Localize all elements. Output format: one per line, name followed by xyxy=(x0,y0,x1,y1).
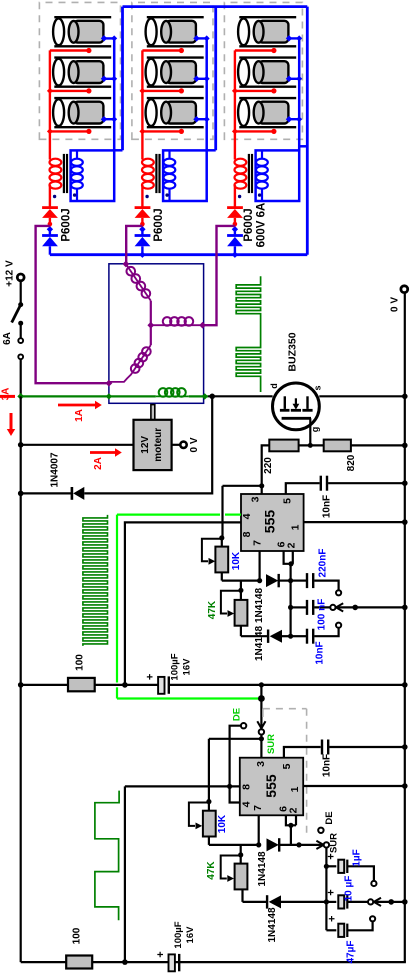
pin 7 label xyxy=(252,805,264,811)
wire pin2 xyxy=(292,551,294,564)
svg-text:5: 5 xyxy=(282,498,294,504)
wire diode junction group 2 xyxy=(140,218,145,227)
dashed enclosure timer 2 xyxy=(263,709,307,836)
wire xyxy=(262,445,270,485)
wire bottom rail xyxy=(21,961,406,963)
label s xyxy=(313,385,323,390)
svg-text:10nF: 10nF xyxy=(322,495,333,518)
pin 8 label xyxy=(241,531,253,537)
wire phase 3 (purple) xyxy=(204,226,235,325)
winding coil A (purple) xyxy=(126,264,151,325)
svg-text:2: 2 xyxy=(288,807,300,813)
svg-text:DE: DE xyxy=(324,811,335,824)
wire xyxy=(20,281,22,305)
label 100 xyxy=(75,654,86,671)
selector wiper 2 xyxy=(374,898,405,906)
label +12 V xyxy=(5,260,16,287)
junction green right xyxy=(202,393,208,399)
svg-text:+12 V: +12 V xyxy=(5,260,16,287)
terminal sel2 b xyxy=(368,899,373,904)
wire cell 2.3 negative (red) xyxy=(142,129,184,134)
selector arrow to SUR xyxy=(257,699,265,729)
junction xyxy=(402,744,408,750)
label SUR (green) xyxy=(266,734,277,754)
capacitor C2 220nF xyxy=(291,573,339,590)
wire blue cell bus group 2 xyxy=(205,38,208,150)
capacitor C3 100nF xyxy=(291,600,331,615)
capacitor C5 100uF 16V xyxy=(145,674,169,694)
transistor Q1 BUZ350 xyxy=(273,383,320,430)
junction xyxy=(402,783,408,789)
label 47K xyxy=(207,600,218,619)
label 1uF xyxy=(352,849,363,866)
junction red bus group 3 xyxy=(232,128,238,134)
battery cell group 3 row 1 xyxy=(238,17,296,46)
wire blue cathode rail xyxy=(50,253,307,256)
potentiometer P4 47K xyxy=(221,855,267,902)
transformer T3 xyxy=(235,150,268,201)
junction pin2/6 U2 xyxy=(288,823,293,828)
junction xyxy=(259,682,264,687)
wire pin1 ground U2 xyxy=(303,785,405,787)
wire blue cell bus group 1 xyxy=(113,38,116,150)
polarity dot T3 primary xyxy=(238,195,241,198)
wire diode junction group 1 xyxy=(48,218,53,227)
svg-text:47K: 47K xyxy=(206,861,217,880)
secondary loop box group 2 (blue) xyxy=(163,150,207,201)
wire pin6 xyxy=(284,551,293,564)
svg-text:1N4148: 1N4148 xyxy=(254,626,265,661)
svg-text:P600J: P600J xyxy=(60,208,72,241)
wire xyxy=(351,444,405,446)
junction blue rail group3 xyxy=(232,252,238,258)
polarity dot T1 primary xyxy=(53,195,56,198)
wire cell 1.2 negative (red) xyxy=(50,88,92,93)
junction red bus group 1 xyxy=(47,128,53,134)
label 10 uF xyxy=(344,876,355,902)
label 0 V xyxy=(390,297,401,312)
terminal sel1 a xyxy=(336,590,341,595)
battery cell group 2 row 1 xyxy=(146,17,204,46)
inductor motor lead (green) xyxy=(156,388,189,397)
svg-text:5: 5 xyxy=(281,763,293,769)
dashed enclosure battery group 3 xyxy=(224,2,302,139)
label 100uF 16V xyxy=(173,921,196,948)
label 47K xyxy=(206,861,217,880)
stator winding box xyxy=(109,264,204,404)
wire blue right edge xyxy=(299,7,307,255)
wire cell 1.3 positive (blue) xyxy=(101,116,117,123)
polarity dot T1 secondary xyxy=(73,193,76,196)
potentiometer P3 10K xyxy=(189,802,259,845)
terminal motor 0V xyxy=(180,442,186,448)
switch 6A xyxy=(12,302,24,396)
resistor R3 100 xyxy=(68,678,95,691)
label 10K xyxy=(217,814,228,833)
junction pin3 node xyxy=(259,483,264,488)
svg-text:10nF: 10nF xyxy=(315,641,326,664)
svg-text:7: 7 xyxy=(252,805,264,811)
label d xyxy=(269,383,279,389)
svg-text:6A: 6A xyxy=(2,332,13,345)
capacitor C10 100uF 16V xyxy=(155,951,179,971)
polarity dot T2 primary xyxy=(145,195,148,198)
junction bus row1 xyxy=(324,864,329,869)
diode D2b P600J (blue) xyxy=(135,229,151,254)
svg-text:g: g xyxy=(310,427,320,433)
wire timing bus xyxy=(290,564,292,636)
wire xyxy=(299,444,324,446)
label 2A (red) xyxy=(93,457,104,470)
junction xyxy=(238,852,243,857)
junction xyxy=(402,605,408,611)
label 100 nF xyxy=(317,599,328,631)
wire cell 1.2 positive (blue) xyxy=(101,76,117,83)
transformer T1 xyxy=(50,150,83,201)
wire xyxy=(21,492,71,494)
svg-text:100: 100 xyxy=(75,654,86,671)
junction pin7 node U2 xyxy=(256,842,261,847)
svg-text:1µF: 1µF xyxy=(352,849,363,866)
svg-text:555: 555 xyxy=(263,774,279,798)
terminal +12V xyxy=(17,274,24,281)
waveform gate burst (green) xyxy=(236,276,260,392)
wire pin3 output U2 xyxy=(209,734,262,801)
svg-text:+: + xyxy=(327,916,339,922)
pin 5 label xyxy=(281,763,293,769)
junction bottom node xyxy=(122,959,128,965)
svg-text:10K: 10K xyxy=(217,814,228,833)
svg-text:1A: 1A xyxy=(74,409,85,422)
wire cell 2.1 positive (blue) xyxy=(193,35,209,41)
svg-text:1: 1 xyxy=(289,786,301,792)
label 1N4148 xyxy=(254,626,265,661)
label 10nF xyxy=(315,641,326,664)
wire pin7 xyxy=(259,551,261,581)
label 220nF xyxy=(317,549,328,578)
junction red bus group 3 xyxy=(232,88,238,94)
junction bus row2 xyxy=(288,605,293,610)
svg-text:47K: 47K xyxy=(207,600,218,619)
wire cell 3.2 negative (red) xyxy=(235,88,277,93)
label 47uF xyxy=(346,941,357,964)
wire xyxy=(290,825,292,845)
svg-text:7: 7 xyxy=(252,540,264,546)
wire blue return top line xyxy=(123,5,308,8)
battery cell group 2 row 2 xyxy=(146,58,204,87)
junction xyxy=(402,682,408,688)
wire DE to pin8/4 xyxy=(230,726,242,787)
pin 4 label xyxy=(241,513,253,519)
svg-text:10K: 10K xyxy=(231,551,242,570)
wire red bus to diode group 2 xyxy=(141,185,143,207)
capacitor C1 10nF xyxy=(321,476,327,491)
svg-text:2: 2 xyxy=(286,542,298,548)
label 100 xyxy=(72,927,83,944)
selector wiper 1 xyxy=(336,603,405,611)
pin 1 label xyxy=(290,524,302,530)
terminal DE xyxy=(241,723,246,728)
junction supply node xyxy=(122,682,128,688)
wire blue drop group2 xyxy=(207,7,216,151)
wire motor positive xyxy=(172,444,181,446)
capacitor C6 10nF xyxy=(322,740,328,755)
junction xyxy=(402,899,408,905)
junction gate node xyxy=(308,443,313,448)
junction red bus group 2 xyxy=(139,128,145,134)
svg-text:1: 1 xyxy=(290,524,302,530)
diode D1b P600J (blue) xyxy=(42,229,58,254)
wire pin2 U2 xyxy=(295,815,297,825)
secondary loop box group 1 (blue) xyxy=(71,150,115,201)
motor shaft xyxy=(151,405,155,420)
wire blue cell bus group 3 xyxy=(298,38,301,150)
secondary loop box group 3 (blue) xyxy=(256,150,300,201)
svg-text:555: 555 xyxy=(262,510,278,534)
svg-text:DE: DE xyxy=(232,708,243,721)
wire xyxy=(328,482,405,484)
svg-text:1N4148: 1N4148 xyxy=(257,851,268,886)
svg-text:P600J: P600J xyxy=(153,208,165,241)
svg-text:0 V: 0 V xyxy=(390,297,401,312)
svg-text:3A: 3A xyxy=(1,388,12,401)
arrow 2A current (red) xyxy=(90,448,122,456)
pin 4 label xyxy=(241,801,253,807)
wire supply row xyxy=(21,684,68,686)
winding coil C (purple) xyxy=(109,325,151,382)
svg-text:100 nF: 100 nF xyxy=(317,599,328,631)
pin 8 label xyxy=(241,784,253,790)
svg-text:1N4148: 1N4148 xyxy=(267,907,278,942)
diode D2a P600J (red) xyxy=(135,208,151,218)
svg-text:2A: 2A xyxy=(93,457,104,470)
svg-text:0 V: 0 V xyxy=(189,437,200,452)
pin 7 label xyxy=(252,540,264,546)
junction pin7 node xyxy=(257,578,262,583)
wire diode junction group 3 xyxy=(233,218,238,227)
potentiometer P2 47K xyxy=(221,590,268,636)
svg-text:SUR: SUR xyxy=(266,734,277,754)
battery cell group 1 row 2 xyxy=(53,58,111,87)
pin 3 label xyxy=(250,496,262,502)
junction pot top xyxy=(219,535,224,540)
pin 2 label xyxy=(288,807,300,813)
terminal sel1 c xyxy=(336,623,341,628)
terminal sel2 a xyxy=(371,881,376,886)
svg-text:16V: 16V xyxy=(182,658,193,676)
svg-text:12V: 12V xyxy=(140,436,151,454)
svg-text:220: 220 xyxy=(263,457,274,474)
svg-text:4: 4 xyxy=(241,513,253,519)
wire pin6 U2 xyxy=(286,815,296,825)
wire cell 3.1 positive (blue) xyxy=(286,35,302,41)
wire motor negative xyxy=(21,444,134,446)
junction blue rail group2 xyxy=(139,252,145,258)
wire blue drop group1 xyxy=(114,7,122,151)
wire pin5 U2 xyxy=(284,747,321,758)
junction pin3 tee xyxy=(259,736,264,741)
label BUZ350 xyxy=(287,332,299,371)
junction xyxy=(18,442,24,448)
arrow 3A current (red) xyxy=(7,413,15,436)
svg-text:4: 4 xyxy=(241,801,253,807)
svg-text:100µF: 100µF xyxy=(173,921,184,948)
junction 3A node xyxy=(17,393,24,400)
junction winding centre xyxy=(147,322,154,329)
svg-text:P600J: P600J xyxy=(243,208,255,241)
battery cell group 1 row 3 xyxy=(53,98,111,127)
capacitor C4 10nF xyxy=(291,628,339,644)
diode D8 1N4148 xyxy=(267,895,326,908)
arrow 1A current (red) xyxy=(58,401,102,409)
motor M1 12V xyxy=(134,420,172,470)
label 10nF xyxy=(322,495,333,518)
svg-text:BUZ350: BUZ350 xyxy=(287,332,299,371)
svg-text:47µF: 47µF xyxy=(346,941,357,964)
svg-text:220nF: 220nF xyxy=(317,549,328,578)
wire red bus group 2 xyxy=(141,50,143,159)
selector arrow to SUR 2 xyxy=(316,841,323,849)
wire timing bus U2 xyxy=(325,847,327,930)
wire gate xyxy=(309,418,311,445)
label 1A (red) xyxy=(74,409,85,422)
junction xyxy=(402,443,408,449)
label SUR xyxy=(329,833,340,853)
battery cell group 3 row 2 xyxy=(238,58,296,87)
wire cell 3.1 negative (red) xyxy=(235,48,277,53)
polarity dot T3 secondary xyxy=(258,193,261,196)
junction green left xyxy=(106,393,112,399)
wire phase 2 (purple) xyxy=(126,226,142,264)
svg-text:+: + xyxy=(155,951,167,957)
junction bus row3 xyxy=(288,634,293,639)
terminal SUR xyxy=(259,729,264,734)
junction blue group 2 xyxy=(139,226,145,232)
junction flyback node xyxy=(209,394,215,400)
junction pin8/4 node xyxy=(227,784,232,789)
svg-text:1N4007: 1N4007 xyxy=(50,452,61,487)
wire red bus to diode group 1 xyxy=(49,185,51,207)
label P600J xyxy=(60,208,72,241)
wire motor line (green) xyxy=(21,395,208,397)
resistor R4 100 xyxy=(66,956,92,969)
svg-text:3: 3 xyxy=(250,496,262,502)
transformer T2 xyxy=(142,150,175,201)
svg-text:SUR: SUR xyxy=(329,833,340,853)
label 1N4148 xyxy=(257,851,268,886)
pin 2 label xyxy=(286,542,298,548)
diode D3a P600J (red) xyxy=(227,208,243,218)
dashed enclosure battery group 1 xyxy=(39,2,120,139)
wire pin3 output xyxy=(223,486,262,538)
label 10K xyxy=(231,551,242,570)
capacitor C9 47uF xyxy=(326,916,372,937)
label P600J 600V 6A xyxy=(243,203,268,248)
battery cell group 2 row 3 xyxy=(146,98,204,127)
wire +12V rail (left) xyxy=(20,396,22,962)
label 6A xyxy=(2,332,13,345)
label 1N4148 xyxy=(254,588,265,623)
wire cell 1.3 negative (red) xyxy=(50,129,92,134)
svg-text:16V: 16V xyxy=(185,926,196,944)
junction blue group 3 xyxy=(232,226,238,232)
wire source to rail xyxy=(319,395,405,397)
wire cell 3.3 positive (blue) xyxy=(286,116,302,123)
wire drain line xyxy=(208,395,273,397)
winding coil B (purple) xyxy=(151,317,204,326)
label 820 xyxy=(346,454,357,471)
terminal 0V xyxy=(401,286,408,293)
junction red bus group 2 xyxy=(139,88,145,94)
svg-text:moteur: moteur xyxy=(153,428,164,462)
wire cell 2.2 negative (red) xyxy=(142,88,184,93)
junction blue group 1 xyxy=(47,226,53,232)
junction xyxy=(18,682,24,688)
label DE (green) xyxy=(232,708,243,721)
junction xyxy=(402,480,408,486)
wire pin1 ground xyxy=(304,521,405,523)
wire xyxy=(240,581,242,591)
label P600J xyxy=(153,208,165,241)
waveform slow gate (green) xyxy=(95,791,119,921)
terminal sel1 b xyxy=(330,605,335,610)
label 10nF xyxy=(321,754,332,777)
diode D5 1N4148 xyxy=(266,574,291,587)
waveform oscillator (green) xyxy=(83,515,108,646)
wire xyxy=(95,684,158,686)
wire xyxy=(260,685,262,699)
pin 6 label xyxy=(276,541,288,547)
IC U2 555 xyxy=(240,758,303,816)
wire phase 1 (purple) xyxy=(36,226,109,383)
junction winding right xyxy=(199,322,206,329)
terminal DE 2 xyxy=(318,828,323,833)
svg-text:8: 8 xyxy=(241,784,253,790)
resistor R2 820 xyxy=(324,440,351,452)
junction pin2/6 xyxy=(288,561,293,566)
svg-text:s: s xyxy=(313,385,323,390)
terminal SUR 2 xyxy=(324,842,329,847)
junction red bus group 1 xyxy=(47,88,53,94)
junction bus row2 xyxy=(324,899,329,904)
diode D3b P600J (blue) xyxy=(227,229,243,254)
diode D4 1N4007 xyxy=(72,487,84,500)
wire pin5 xyxy=(286,483,320,494)
junction bus row1 xyxy=(288,578,293,583)
junction pot top U2 xyxy=(206,799,211,804)
label 100uF 16V xyxy=(170,653,193,680)
label g xyxy=(310,427,320,433)
label DE xyxy=(324,811,335,824)
svg-text:+: + xyxy=(145,674,157,680)
junction xyxy=(238,588,243,593)
potentiometer P1 10K xyxy=(202,538,260,581)
pin 1 label xyxy=(289,786,301,792)
polarity dot T2 secondary xyxy=(165,193,168,196)
wire cell 3.3 negative (red) xyxy=(235,129,277,134)
svg-text:10 µF: 10 µF xyxy=(344,876,355,902)
pin 5 label xyxy=(282,498,294,504)
diode D6 1N4148 xyxy=(268,630,291,643)
svg-text:10nF: 10nF xyxy=(321,754,332,777)
wire cell 2.3 positive (blue) xyxy=(193,116,209,123)
svg-text:600V 6A: 600V 6A xyxy=(256,203,268,248)
wire cell 1.1 negative (red) xyxy=(50,48,92,53)
junction xyxy=(296,842,301,847)
pin 3 label xyxy=(255,761,267,767)
wire red bus to diode group 3 xyxy=(234,185,236,207)
wire xyxy=(240,845,242,855)
